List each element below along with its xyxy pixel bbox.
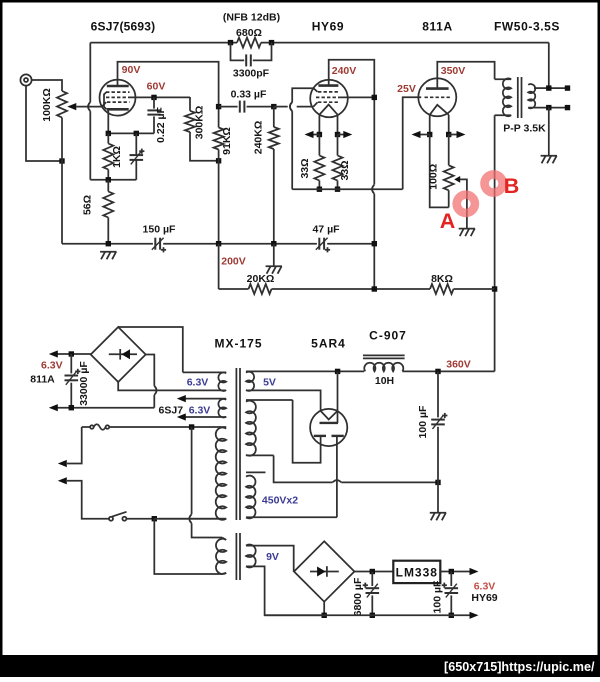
node BR2 minus: [322, 613, 327, 618]
resistor 33ohm left: [318, 135, 320, 156]
node coupling left: [216, 104, 221, 109]
svg-text:8KΩ: 8KΩ: [431, 273, 453, 285]
svg-text:20KΩ: 20KΩ: [247, 273, 275, 285]
wire 8K to 360V: [454, 288, 495, 290]
bottom watermark bar: [0, 655, 600, 677]
node 33ohm bottoms: [317, 187, 322, 192]
svg-text:91KΩ: 91KΩ: [221, 127, 233, 155]
highlight ring B: [485, 174, 503, 192]
resistor 20Kohm: [219, 288, 249, 290]
wire BR2 plus rail: [354, 571, 393, 573]
wire 5AR4 fil right to cathode line: [337, 371, 339, 423]
node pot bottom: [59, 158, 64, 163]
node 100uF psu top: [435, 369, 440, 374]
svg-text:811A: 811A: [422, 20, 452, 34]
choke C-907: [363, 354, 405, 356]
resistor 300Kohm: [189, 97, 191, 111]
node 811A fil left: [427, 132, 432, 137]
tube V3 811A: [418, 78, 456, 116]
wire minus rail: [265, 614, 471, 616]
wire AC hot prong: [67, 427, 82, 464]
capacitor 47uF: [316, 238, 328, 250]
svg-text:6.3V: 6.3V: [189, 404, 211, 416]
wire choke to 360V node: [402, 370, 494, 372]
capacitor 100uF heater: [450, 572, 452, 587]
capacitor cathode bypass electrolytic: [135, 133, 137, 155]
rectifier bridge BR2: [294, 541, 354, 601]
resistor 240Kohm grid leak: [273, 107, 275, 127]
capacitor 33000uF: [70, 354, 72, 373]
wire BR1 plus rail: [58, 353, 91, 355]
regulator LM338: [393, 561, 440, 583]
wire 811A filament right: [448, 115, 450, 135]
node cathode resistor junction: [106, 177, 111, 182]
svg-text:10H: 10H: [375, 375, 394, 387]
wire fil left down to pot bottom: [430, 135, 449, 208]
transformer T-OT secondary winding: [528, 84, 535, 108]
node 8K to B+: [492, 286, 497, 291]
ground OT secondary: [541, 156, 557, 164]
wire grid node to HY69: [274, 106, 288, 108]
wire ground stub: [273, 244, 275, 266]
wire 9V top to bridge: [246, 546, 294, 572]
resistor 33ohm right: [337, 135, 339, 156]
border frame: [0, 0, 600, 3]
transformer T-OT primary winding: [495, 78, 512, 80]
svg-text:100 µF: 100 µF: [417, 405, 429, 438]
svg-text:HY69: HY69: [471, 592, 497, 604]
svg-text:350V: 350V: [441, 65, 466, 77]
wire to T1 primary bottom: [154, 518, 226, 520]
node 0.22uF top: [151, 95, 156, 100]
wire 5V bottom to 5AR4 fil: [246, 390, 321, 411]
svg-text:6SJ7: 6SJ7: [159, 404, 184, 416]
svg-text:300KΩ: 300KΩ: [193, 106, 205, 140]
node 6800 top: [370, 569, 375, 574]
potentiometer VR2 100ohm hum: [448, 135, 450, 166]
svg-text:FW50-3.5S: FW50-3.5S: [494, 20, 560, 34]
svg-text:360V: 360V: [446, 358, 471, 370]
ground hum pot: [459, 229, 475, 237]
resistor 680ohm NFB: [237, 38, 261, 48]
node rail-91K 200V: [216, 241, 221, 246]
tube V1 6SJ7: [100, 80, 136, 116]
svg-text:B: B: [504, 174, 520, 198]
transformer T-OT core: [517, 77, 519, 118]
diode inside BR2: [310, 571, 339, 573]
wire switch to junction: [126, 518, 154, 520]
svg-text:680Ω: 680Ω: [236, 27, 262, 39]
fuse F1: [82, 426, 91, 428]
node psu ground: [435, 480, 440, 485]
wire 91K to 200V rail: [218, 161, 220, 244]
wire rail mid segment: [163, 243, 317, 245]
resistor 56ohm: [107, 180, 109, 192]
wire 240V node line: [272, 288, 431, 290]
wire 6SJ7 screen 60V line: [130, 96, 191, 98]
switch SW1: [109, 517, 113, 521]
node 811A fil right: [446, 132, 451, 137]
svg-text:60V: 60V: [147, 81, 166, 93]
arrow 811A fil left: [421, 134, 430, 136]
wire BR1 right corner down: [146, 355, 155, 386]
svg-text:33Ω: 33Ω: [339, 160, 351, 180]
wire pot wiper to 6SJ7 grid: [76, 106, 102, 108]
wire NFB right vertical to OT secondary: [548, 43, 550, 89]
wire HY69 filament right: [337, 115, 339, 135]
svg-text:1KΩ: 1KΩ: [111, 146, 123, 168]
wire jack to pot top: [32, 80, 62, 91]
svg-text:450Vx2: 450Vx2: [262, 495, 298, 507]
svg-text:6SJ7(5693): 6SJ7(5693): [91, 20, 156, 34]
wire HY69 screen tie: [341, 96, 374, 98]
node filament right: [335, 132, 340, 137]
wire NFB left vertical to 6SJ7 cathode: [89, 43, 91, 103]
arrow 6.3V filament left: [308, 134, 319, 136]
node 100uF out top: [449, 569, 454, 574]
wire 5V top lead / cathode line: [246, 370, 338, 372]
svg-text:HY69: HY69: [312, 20, 344, 34]
speaker terminals: [549, 87, 568, 89]
wire 240V node to 20K-8K line: [373, 244, 375, 289]
svg-text:0.33 µF: 0.33 µF: [231, 88, 267, 100]
wire pot bottom to ground rail: [61, 118, 63, 244]
input jack: [20, 74, 31, 85]
wire BR2 bottom to minus rail: [323, 602, 325, 616]
T1 winding 6.3V 811A: [183, 371, 226, 373]
T1 primary winding: [192, 426, 227, 428]
wire HY69 grid return: [292, 88, 313, 102]
svg-text:(NFB 12dB): (NFB 12dB): [223, 12, 280, 24]
node HY69 screen-plate: [372, 95, 377, 100]
node rail-56ohm: [106, 241, 111, 246]
svg-text:LM338: LM338: [396, 566, 438, 580]
node 6800 bottom: [370, 613, 375, 618]
capacitor 6800uF: [371, 572, 373, 587]
T1 450V winding lower: [246, 476, 256, 519]
node NFB right: [269, 40, 274, 45]
wire secondary to ground: [548, 108, 550, 156]
svg-text:[650x715]https://upic.me/: [650x715]https://upic.me/: [444, 660, 595, 674]
svg-text:811A: 811A: [30, 374, 55, 386]
wire 811A plate to OT: [437, 62, 494, 89]
capacitor 3300pF NFB: [231, 43, 245, 61]
transformer T2 core: [235, 533, 237, 580]
resistor 91Kohm: [218, 107, 220, 128]
svg-text:33Ω: 33Ω: [299, 158, 311, 178]
node 33000 bottom: [69, 405, 74, 410]
node 33000 top: [69, 351, 74, 356]
node 100uF out bottom: [449, 613, 454, 618]
wire HY69 filament left: [318, 115, 320, 135]
node cathode-bypass: [134, 131, 139, 136]
svg-text:240KΩ: 240KΩ: [252, 121, 264, 155]
svg-text:90V: 90V: [122, 64, 141, 76]
svg-text:100Ω: 100Ω: [428, 164, 440, 190]
wire cathode node rail: [108, 132, 154, 134]
ground input stage: [100, 252, 116, 259]
tube V4 5AR4: [310, 409, 347, 446]
svg-text:6800 µF: 6800 µF: [352, 577, 364, 616]
wire 5AR4 plate left: [293, 400, 321, 463]
wire LM338 out: [440, 571, 471, 573]
wire jack sleeve down: [26, 86, 62, 161]
wire 9V bottom to bridge: [246, 566, 324, 615]
resistor 1Kohm cathode: [107, 133, 109, 143]
T1 5V winding: [246, 372, 254, 391]
wire 200V feed down: [218, 244, 220, 289]
node 240V-B line: [372, 286, 377, 291]
wire 6SJ7 cathode down: [107, 109, 109, 133]
svg-text:240V: 240V: [332, 65, 357, 77]
arrow 811A fil right: [449, 134, 457, 136]
wire rail 200V left segment: [62, 243, 153, 245]
wire BR1 bottom corner to winding: [118, 382, 226, 390]
wire 5AR4 plate right: [336, 436, 338, 517]
svg-text:MX-175: MX-175: [214, 337, 262, 351]
wire NFB top from 6SJ7 area to output: [90, 42, 237, 44]
node T2 branch: [152, 516, 157, 521]
svg-text:47 µF: 47 µF: [312, 223, 340, 235]
svg-text:C-907: C-907: [369, 329, 407, 343]
wire 811A filament left: [429, 115, 431, 135]
svg-text:33000 µF: 33000 µF: [78, 361, 90, 406]
capacitor 150uF: [152, 238, 164, 250]
resistor 8Kohm: [430, 284, 454, 294]
tube V2 HY69: [310, 80, 348, 118]
svg-text:25V: 25V: [397, 83, 416, 95]
rectifier bridge BR1: [91, 327, 146, 382]
svg-text:56Ω: 56Ω: [81, 195, 93, 215]
wire HY69 plate to dropping network: [329, 60, 375, 185]
svg-text:9V: 9V: [266, 551, 279, 563]
node 5AR4 cathode: [335, 369, 340, 374]
wire BR1 minus rail: [58, 407, 155, 409]
T2 primary winding: [216, 539, 226, 574]
svg-text:6.3V: 6.3V: [41, 359, 63, 371]
T2 secondary 9V winding: [246, 545, 256, 568]
wire hot down to T2: [191, 427, 193, 514]
wire cathode rail to 811A grid 25V: [292, 188, 403, 190]
transformer T1 core: [235, 368, 237, 520]
svg-text:3300pF: 3300pF: [233, 68, 270, 80]
node 300K-91K bottom: [216, 158, 221, 163]
T1 winding 6.3V 6SJ7 leads with arrows: [181, 398, 226, 400]
svg-text:150 µF: 150 µF: [143, 223, 176, 235]
svg-text:6.3V: 6.3V: [187, 376, 209, 388]
svg-text:100KΩ: 100KΩ: [41, 88, 53, 122]
highlight ring A: [457, 195, 475, 213]
node rail-240K: [271, 241, 276, 246]
wire neutral down to T2: [154, 519, 222, 574]
svg-text:0.22 µF: 0.22 µF: [155, 107, 167, 143]
node cathode-1K: [106, 131, 111, 136]
svg-text:A: A: [440, 209, 456, 233]
node fuse-primary: [189, 424, 194, 429]
T1 450V winding upper: [246, 399, 293, 401]
wire HV center tap to ground: [274, 455, 333, 482]
ground psu: [430, 513, 446, 521]
wiper arrow 100ohm: [454, 176, 460, 183]
svg-text:200V: 200V: [221, 256, 246, 268]
wire AC neutral prong: [67, 481, 109, 519]
capacitor 0.22uF screen bypass: [153, 97, 155, 108]
svg-text:5V: 5V: [263, 376, 276, 388]
node filament left: [317, 132, 322, 137]
ground mid rail: [266, 266, 282, 274]
wire 6SJ7 plate to coupling node: [118, 62, 219, 107]
wire to psu ground symbol: [437, 482, 439, 512]
node NFB left: [228, 40, 233, 45]
node rail-HY69: [372, 241, 377, 246]
wire OT primary B+ down: [494, 115, 496, 371]
capacitor 0.33uF coupling: [219, 106, 238, 108]
node HY69 grid: [271, 104, 276, 109]
T1 450V tap leads: [246, 454, 274, 456]
potentiometer VR1 100Kohm: [57, 91, 67, 118]
svg-text:P-P 3.5K: P-P 3.5K: [503, 123, 546, 135]
diode inside BR1: [109, 353, 137, 355]
svg-text:6.3V: 6.3V: [474, 581, 496, 593]
wire rail right segment: [327, 243, 374, 245]
svg-text:5AR4: 5AR4: [311, 337, 346, 351]
svg-text:100 µF: 100 µF: [431, 580, 443, 613]
wire BR1 ac top corner to 6.3V winding: [118, 327, 183, 372]
capacitor 100uF psu: [437, 371, 439, 417]
arrow 6.3V filament right: [338, 134, 349, 136]
